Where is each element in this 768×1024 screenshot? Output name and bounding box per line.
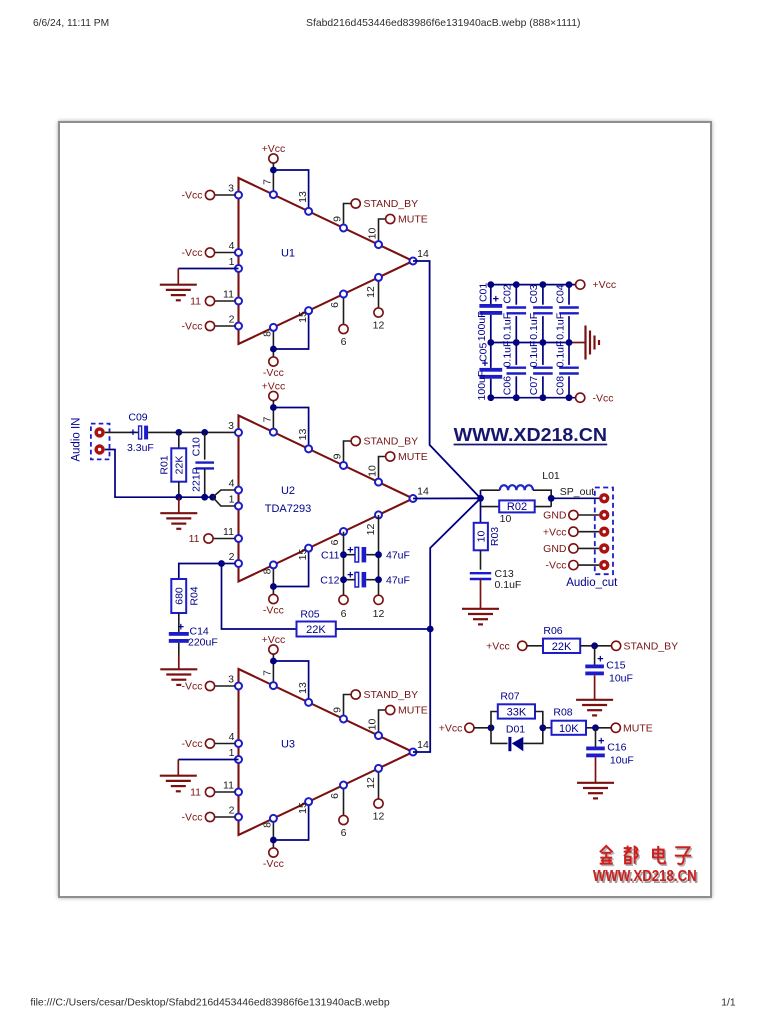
svg-text:0.1uF: 0.1uF xyxy=(502,341,514,368)
svg-text:7: 7 xyxy=(262,416,274,422)
svg-text:10uF: 10uF xyxy=(610,755,634,767)
svg-text:R08: R08 xyxy=(553,707,572,719)
svg-text:C11: C11 xyxy=(321,549,340,561)
svg-text:U1: U1 xyxy=(281,248,295,260)
STAND_BY terminal xyxy=(612,641,621,650)
capacitor C10 221P xyxy=(204,432,206,459)
inductor L01 rail left xyxy=(481,489,500,491)
svg-text:WWW.XD218.CN: WWW.XD218.CN xyxy=(454,424,607,445)
junction R07 left xyxy=(488,724,495,731)
svg-text:14: 14 xyxy=(417,248,429,260)
junction mid rail col 1 xyxy=(487,339,494,346)
svg-text:10K: 10K xyxy=(559,723,579,735)
U1 pin 9 xyxy=(340,224,347,231)
U2 pin 11 xyxy=(235,535,242,542)
junction mid rail col 3 xyxy=(540,339,547,346)
junction mid rail col 2 xyxy=(513,339,520,346)
svg-text:+: + xyxy=(598,736,604,748)
svg-text:U2: U2 xyxy=(281,485,295,497)
svg-text:0.1uF: 0.1uF xyxy=(554,313,566,340)
capacitor C07 column xyxy=(542,343,544,365)
svg-text:2: 2 xyxy=(229,805,235,817)
U3 wire pin15 bracket xyxy=(273,802,308,840)
wire jog to U2 pin1 xyxy=(213,497,235,506)
U2 wire pin10 to MUTE xyxy=(379,457,386,483)
svg-text:12: 12 xyxy=(373,320,385,332)
U1 -Vcc power terminal xyxy=(269,357,278,366)
U1 pin11 terminal xyxy=(215,300,236,302)
junction input rail R01 xyxy=(175,494,182,501)
U1 junction +Vcc xyxy=(270,167,277,174)
svg-text:100uF: 100uF xyxy=(476,311,488,341)
U2 wire pin7 to +Vcc xyxy=(272,401,274,433)
capacitor C01 column xyxy=(490,285,492,304)
svg-text:R02: R02 xyxy=(507,501,527,513)
U1 -Vcc terminal pin wire xyxy=(215,325,236,327)
U1 pin 11 xyxy=(235,298,242,305)
svg-text:6: 6 xyxy=(341,827,347,839)
ground C16 xyxy=(577,782,614,784)
U1 pin 13 xyxy=(305,208,312,215)
U1 pin 6 xyxy=(340,291,347,298)
svg-text:1: 1 xyxy=(229,747,235,759)
svg-text:+Vcc: +Vcc xyxy=(439,722,463,734)
svg-text:C03: C03 xyxy=(528,284,540,303)
wire to SP_out xyxy=(551,497,599,499)
U3 STAND_BY terminal xyxy=(351,690,360,699)
Audio_cut pin 5 terminal xyxy=(569,561,578,570)
U2 wire pin9 to STAND_BY xyxy=(344,441,352,465)
+Vcc terminal cap bank xyxy=(576,280,585,289)
svg-text:STAND_BY: STAND_BY xyxy=(624,640,679,652)
U2 wire pin15 bracket xyxy=(273,548,308,586)
U3 -Vcc power terminal xyxy=(269,848,278,857)
U2 pin 3 xyxy=(235,429,242,436)
wire R08 to MUTE xyxy=(586,727,611,729)
U1 wire pin15 bracket xyxy=(273,311,308,349)
svg-text:22K: 22K xyxy=(174,456,186,475)
U1 wire pin7 to +Vcc xyxy=(272,163,274,195)
svg-text:11: 11 xyxy=(223,526,234,538)
brand logo Chinese characters xyxy=(601,847,693,866)
svg-text:680: 680 xyxy=(174,587,186,605)
U3 wire pin8 to -Vcc xyxy=(272,818,274,848)
svg-text:C05: C05 xyxy=(478,343,490,362)
svg-text:9: 9 xyxy=(332,453,344,459)
U3 -Vcc terminal pin wire xyxy=(215,816,236,818)
U1 wire pin8 to -Vcc xyxy=(272,327,274,357)
junction top rail col 3 xyxy=(540,281,547,288)
svg-text:R05: R05 xyxy=(300,609,319,621)
svg-text:R06: R06 xyxy=(543,625,562,637)
U1 wire pin6 stub xyxy=(343,294,345,324)
svg-text:13: 13 xyxy=(297,191,309,203)
U1 pin 12 xyxy=(375,274,382,281)
svg-text:10uF: 10uF xyxy=(609,673,633,685)
U1 wire pin13 bracket xyxy=(273,170,308,211)
U2 pin11 terminal xyxy=(213,538,235,540)
U2 pin 15 xyxy=(305,545,312,552)
svg-text:-Vcc: -Vcc xyxy=(546,560,567,572)
wire output node verticals xyxy=(480,490,482,523)
op-amp U1 TDA7293 triangle body xyxy=(239,178,414,344)
ground C15 xyxy=(576,699,613,701)
U1 STAND_BY terminal xyxy=(351,199,360,208)
Audio_cut pin 5 ring xyxy=(599,560,609,570)
svg-text:R03: R03 xyxy=(489,527,501,546)
Audio_cut pin 1 ring xyxy=(599,493,609,503)
svg-text:WWW.XD218.CN: WWW.XD218.CN xyxy=(593,868,697,885)
svg-text:12: 12 xyxy=(373,608,385,620)
U2 pin 8 xyxy=(270,561,277,568)
resistor R03 10 xyxy=(474,523,488,551)
U1 -Vcc terminal pin wire xyxy=(215,252,236,254)
svg-text:L01: L01 xyxy=(542,470,560,482)
svg-text:C12: C12 xyxy=(320,574,339,586)
svg-text:SP_out: SP_out xyxy=(560,486,595,498)
svg-text:13: 13 xyxy=(297,682,309,694)
U3 pin 13 xyxy=(305,699,312,706)
U3 pin 10 xyxy=(375,732,382,739)
Audio_cut pin 5 wire xyxy=(578,564,599,566)
svg-text:3: 3 xyxy=(228,674,234,686)
U3 pin6 terminal xyxy=(339,815,348,824)
svg-text:0.1uF: 0.1uF xyxy=(528,313,540,340)
junction R06 C15 xyxy=(591,642,598,649)
U2 -Vcc power terminal xyxy=(269,594,278,603)
ground C13 xyxy=(462,608,499,610)
svg-text:C06: C06 xyxy=(502,376,514,395)
svg-text:TDA7293: TDA7293 xyxy=(265,503,311,515)
U3 pin 6 xyxy=(340,782,347,789)
junction C10 top xyxy=(201,429,208,436)
svg-text:12: 12 xyxy=(365,777,377,789)
svg-text:7: 7 xyxy=(262,670,274,676)
junction R07 right xyxy=(539,724,546,731)
wire U3 pin14 to output node bus xyxy=(413,498,481,752)
svg-text:-Vcc: -Vcc xyxy=(182,738,203,750)
wire U2 pin12 chain xyxy=(378,515,380,595)
svg-text:0.1uF: 0.1uF xyxy=(554,341,566,368)
junction C12 left xyxy=(340,576,347,583)
svg-text:6: 6 xyxy=(329,302,341,308)
U3 pin 2 xyxy=(235,814,242,821)
capacitor C13 0.1uF xyxy=(470,572,491,574)
U3 -Vcc terminal pin wire xyxy=(215,685,236,687)
svg-text:9: 9 xyxy=(332,707,344,713)
svg-text:MUTE: MUTE xyxy=(398,705,428,717)
svg-text:C04: C04 xyxy=(554,284,566,303)
U1 wire pin10 to MUTE xyxy=(379,219,386,245)
U1 pin 2 xyxy=(235,323,242,330)
Audio_cut pin 4 wire xyxy=(578,547,599,549)
Audio IN pin 1 ring xyxy=(94,427,104,437)
capacitor bank mid rail xyxy=(491,342,569,344)
svg-text:-Vcc: -Vcc xyxy=(182,681,203,693)
U1 pin 15 xyxy=(305,307,312,314)
U2 pin 10 xyxy=(375,479,382,486)
Audio IN pin 2 ring xyxy=(94,444,104,454)
U3 junction +Vcc xyxy=(270,658,277,665)
svg-text:22K: 22K xyxy=(552,641,572,653)
U1 pin 1 xyxy=(235,265,242,272)
svg-text:11: 11 xyxy=(190,787,201,799)
U1 wire pin12 stub xyxy=(378,277,380,307)
U3 pin 1 xyxy=(235,756,242,763)
U1 ground xyxy=(160,284,197,286)
svg-text:Audio IN: Audio IN xyxy=(71,418,83,462)
wire mid rail to ground xyxy=(569,342,586,344)
wire C15 to ground xyxy=(594,675,596,700)
capacitor C02 column xyxy=(515,285,517,305)
svg-text:2: 2 xyxy=(229,551,235,563)
U1 wire pin9 to STAND_BY xyxy=(344,204,352,228)
svg-text:14: 14 xyxy=(417,739,429,751)
svg-text:11: 11 xyxy=(223,780,234,792)
U3 pin11 terminal xyxy=(215,791,236,793)
U2 junction -Vcc xyxy=(270,583,277,590)
svg-text:0.1uF: 0.1uF xyxy=(528,341,540,368)
U3 MUTE terminal xyxy=(386,705,395,714)
svg-text:11: 11 xyxy=(190,296,201,308)
junction bottom rail col 3 xyxy=(540,394,547,401)
wire U1 pin14 to output node xyxy=(413,261,481,498)
svg-text:10: 10 xyxy=(367,228,379,240)
svg-text:MUTE: MUTE xyxy=(398,451,428,463)
U1 MUTE terminal xyxy=(386,214,395,223)
U3 pin 9 xyxy=(340,715,347,722)
Audio_cut pin 2 ring xyxy=(599,510,609,520)
svg-text:13: 13 xyxy=(297,429,309,441)
junction bottom rail col 1 xyxy=(487,394,494,401)
+Vcc terminal R06 xyxy=(518,641,527,650)
U2 junction +Vcc xyxy=(270,404,277,411)
svg-text:11: 11 xyxy=(223,289,234,301)
+Vcc terminal R07 xyxy=(465,723,474,732)
resistor R05 22K xyxy=(297,622,336,637)
wire jog to U2 pin4 xyxy=(213,490,235,497)
svg-text:C14: C14 xyxy=(190,626,209,638)
MUTE terminal xyxy=(611,723,620,732)
op-amp U2 TDA7293 triangle body xyxy=(239,416,414,582)
U1 -Vcc terminal pin wire xyxy=(215,194,236,196)
junction bottom rail col 4 xyxy=(566,394,573,401)
svg-text:+: + xyxy=(130,427,136,439)
svg-text:47uF: 47uF xyxy=(386,574,410,586)
Audio_cut pin 3 wire xyxy=(578,531,599,533)
U1 junction -Vcc xyxy=(270,346,277,353)
junction input rail jog xyxy=(209,494,216,501)
svg-text:6: 6 xyxy=(341,336,347,348)
svg-text:12: 12 xyxy=(365,286,377,298)
svg-text:-Vcc: -Vcc xyxy=(263,367,284,379)
svg-text:0.1uF: 0.1uF xyxy=(502,313,514,340)
U1 pin12 terminal xyxy=(374,308,383,317)
svg-text:MUTE: MUTE xyxy=(623,722,653,734)
svg-text:+Vcc: +Vcc xyxy=(593,279,617,291)
Audio_cut pin 2 terminal xyxy=(569,510,578,519)
svg-text:6: 6 xyxy=(329,793,341,799)
U3 pin 15 xyxy=(305,798,312,805)
junction R01 top xyxy=(175,429,182,436)
svg-text:12: 12 xyxy=(365,524,377,536)
svg-text:2: 2 xyxy=(229,314,235,326)
svg-text:33K: 33K xyxy=(507,707,527,719)
connector Audio IN xyxy=(91,424,110,460)
wire U2 pin14 to output node xyxy=(413,497,481,499)
resistor R07 33K xyxy=(498,704,535,718)
U2 pin 1 xyxy=(235,503,242,510)
wire C14 to ground xyxy=(178,643,180,655)
Audio_cut pin 3 terminal xyxy=(569,527,578,536)
inductor L01 coil xyxy=(500,485,533,490)
inductor L01 rail right xyxy=(533,490,551,506)
resistor R04 680 xyxy=(171,579,186,613)
svg-text:4: 4 xyxy=(229,240,235,252)
Audio_cut pin 2 wire xyxy=(578,514,599,516)
U3 wire pin10 to MUTE xyxy=(379,710,386,736)
svg-text:6: 6 xyxy=(329,539,341,545)
U2 pin12 terminal xyxy=(374,595,383,604)
U2 pin 13 xyxy=(305,445,312,452)
svg-text:MUTE: MUTE xyxy=(398,214,428,226)
U3 pin 14 xyxy=(410,749,417,756)
U2 pin6 terminal xyxy=(339,595,348,604)
svg-text:+: + xyxy=(347,544,353,556)
U2 MUTE terminal xyxy=(386,452,395,461)
U3 wire pin12 stub xyxy=(378,768,380,798)
U3 wire pin6 stub xyxy=(343,785,345,815)
Audio_cut pin 4 terminal xyxy=(569,544,578,553)
svg-text:D01: D01 xyxy=(506,724,525,736)
wire R06 to STAND_BY xyxy=(580,645,611,647)
U3 pin 7 xyxy=(270,682,277,689)
svg-text:10: 10 xyxy=(500,513,512,525)
wire C16 to ground xyxy=(595,757,597,783)
wire C09 to U2 pin3 xyxy=(148,431,235,433)
wire R07 branch xyxy=(491,712,498,728)
U1 pin 8 xyxy=(270,324,277,331)
capacitor C08 column xyxy=(568,343,570,365)
capacitor C14 220uF electrolytic xyxy=(169,632,189,636)
U3 wire pin7 to +Vcc xyxy=(272,654,274,686)
svg-text:6: 6 xyxy=(341,608,347,620)
resistor R06 22K xyxy=(543,639,580,653)
schematic page frame xyxy=(58,121,712,898)
wire pin2 junction down to R05 xyxy=(222,564,297,630)
capacitor C15 10uF xyxy=(594,646,596,665)
ground cap bank xyxy=(584,326,586,360)
wire C13 to ground xyxy=(480,579,482,609)
capacitor C05 column xyxy=(490,343,492,368)
svg-text:15: 15 xyxy=(297,802,309,814)
U2 pin 12 xyxy=(375,511,382,518)
capacitor bank top rail +Vcc xyxy=(491,284,576,286)
Audio_cut pin 4 ring xyxy=(599,543,609,553)
resistor R08 10K xyxy=(552,721,587,735)
U2 wire pin13 bracket xyxy=(273,408,308,449)
U3 wire pin13 bracket xyxy=(273,661,308,702)
svg-text:1/1: 1/1 xyxy=(721,998,736,1009)
wire U2 pin6 chain xyxy=(343,532,345,596)
junction SP_out xyxy=(548,495,555,502)
U3 pin12 terminal xyxy=(374,799,383,808)
U1 pin 7 xyxy=(270,191,277,198)
svg-text:C09: C09 xyxy=(128,411,147,423)
svg-text:GND: GND xyxy=(543,543,567,555)
svg-text:0.1uF: 0.1uF xyxy=(495,579,522,591)
svg-text:+: + xyxy=(178,622,184,634)
U3 pin 3 xyxy=(235,683,242,690)
svg-text:STAND_BY: STAND_BY xyxy=(364,689,419,701)
U2 pin 6 xyxy=(340,528,347,535)
svg-text:220uF: 220uF xyxy=(188,637,218,649)
junction top rail col 4 xyxy=(566,281,573,288)
junction mid rail col 4 xyxy=(566,339,573,346)
junction top rail col 2 xyxy=(513,281,520,288)
svg-text:10: 10 xyxy=(367,719,379,731)
svg-text:+: + xyxy=(493,294,499,306)
svg-text:9: 9 xyxy=(332,216,344,222)
svg-text:+: + xyxy=(597,654,603,666)
svg-text:-Vcc: -Vcc xyxy=(182,812,203,824)
svg-text:Sfabd216d453446ed83986f6e13194: Sfabd216d453446ed83986f6e131940acB.webp … xyxy=(306,18,581,29)
svg-text:6/6/24, 11:11 PM: 6/6/24, 11:11 PM xyxy=(33,18,109,29)
Audio_cut pin 3 ring xyxy=(599,527,609,537)
svg-text:C15: C15 xyxy=(606,660,625,672)
U1 pin 10 xyxy=(375,241,382,248)
capacitor C03 column xyxy=(542,285,544,305)
svg-text:+Vcc: +Vcc xyxy=(543,526,567,538)
svg-text:-Vcc: -Vcc xyxy=(182,321,203,333)
svg-text:file:///C:/Users/cesar/Desktop: file:///C:/Users/cesar/Desktop/Sfabd216d… xyxy=(30,998,390,1009)
wire U2 pin2 to R04 xyxy=(222,563,236,565)
input ground drop xyxy=(178,497,180,513)
svg-text:R04: R04 xyxy=(189,586,201,605)
svg-text:10: 10 xyxy=(367,465,379,477)
ground input xyxy=(160,512,197,514)
resistor R01 22K xyxy=(178,432,180,448)
U3 pin 11 xyxy=(235,789,242,796)
svg-text:+Vcc: +Vcc xyxy=(486,640,510,652)
U3 wire pin9 to STAND_BY xyxy=(344,695,352,719)
U1 pin 14 xyxy=(410,258,417,265)
U1 pin1 ground wire xyxy=(178,268,238,270)
svg-text:STAND_BY: STAND_BY xyxy=(364,198,419,210)
capacitor C11 47uF xyxy=(355,547,359,562)
svg-text:GND: GND xyxy=(543,510,567,522)
U3 ground xyxy=(160,775,197,777)
svg-text:C07: C07 xyxy=(528,376,540,395)
svg-text:221P: 221P xyxy=(191,467,203,492)
diode D01 xyxy=(491,728,508,744)
capacitor C06 column xyxy=(515,343,517,365)
U1 pin6 terminal xyxy=(339,324,348,333)
svg-text:22K: 22K xyxy=(306,624,326,636)
svg-text:15: 15 xyxy=(297,311,309,323)
svg-text:1: 1 xyxy=(229,256,235,268)
U2 pin 14 xyxy=(410,495,417,502)
svg-text:STAND_BY: STAND_BY xyxy=(364,436,419,448)
resistor R02 10 xyxy=(481,506,500,508)
svg-text:11: 11 xyxy=(189,533,200,545)
svg-text:10: 10 xyxy=(476,531,488,543)
op-amp U3 TDA7293 triangle body xyxy=(239,669,414,835)
svg-text:Audio_cut: Audio_cut xyxy=(566,577,618,589)
svg-text:47uF: 47uF xyxy=(386,549,410,561)
wire Audio IN to C09 xyxy=(105,431,139,433)
svg-text:4: 4 xyxy=(229,478,235,490)
